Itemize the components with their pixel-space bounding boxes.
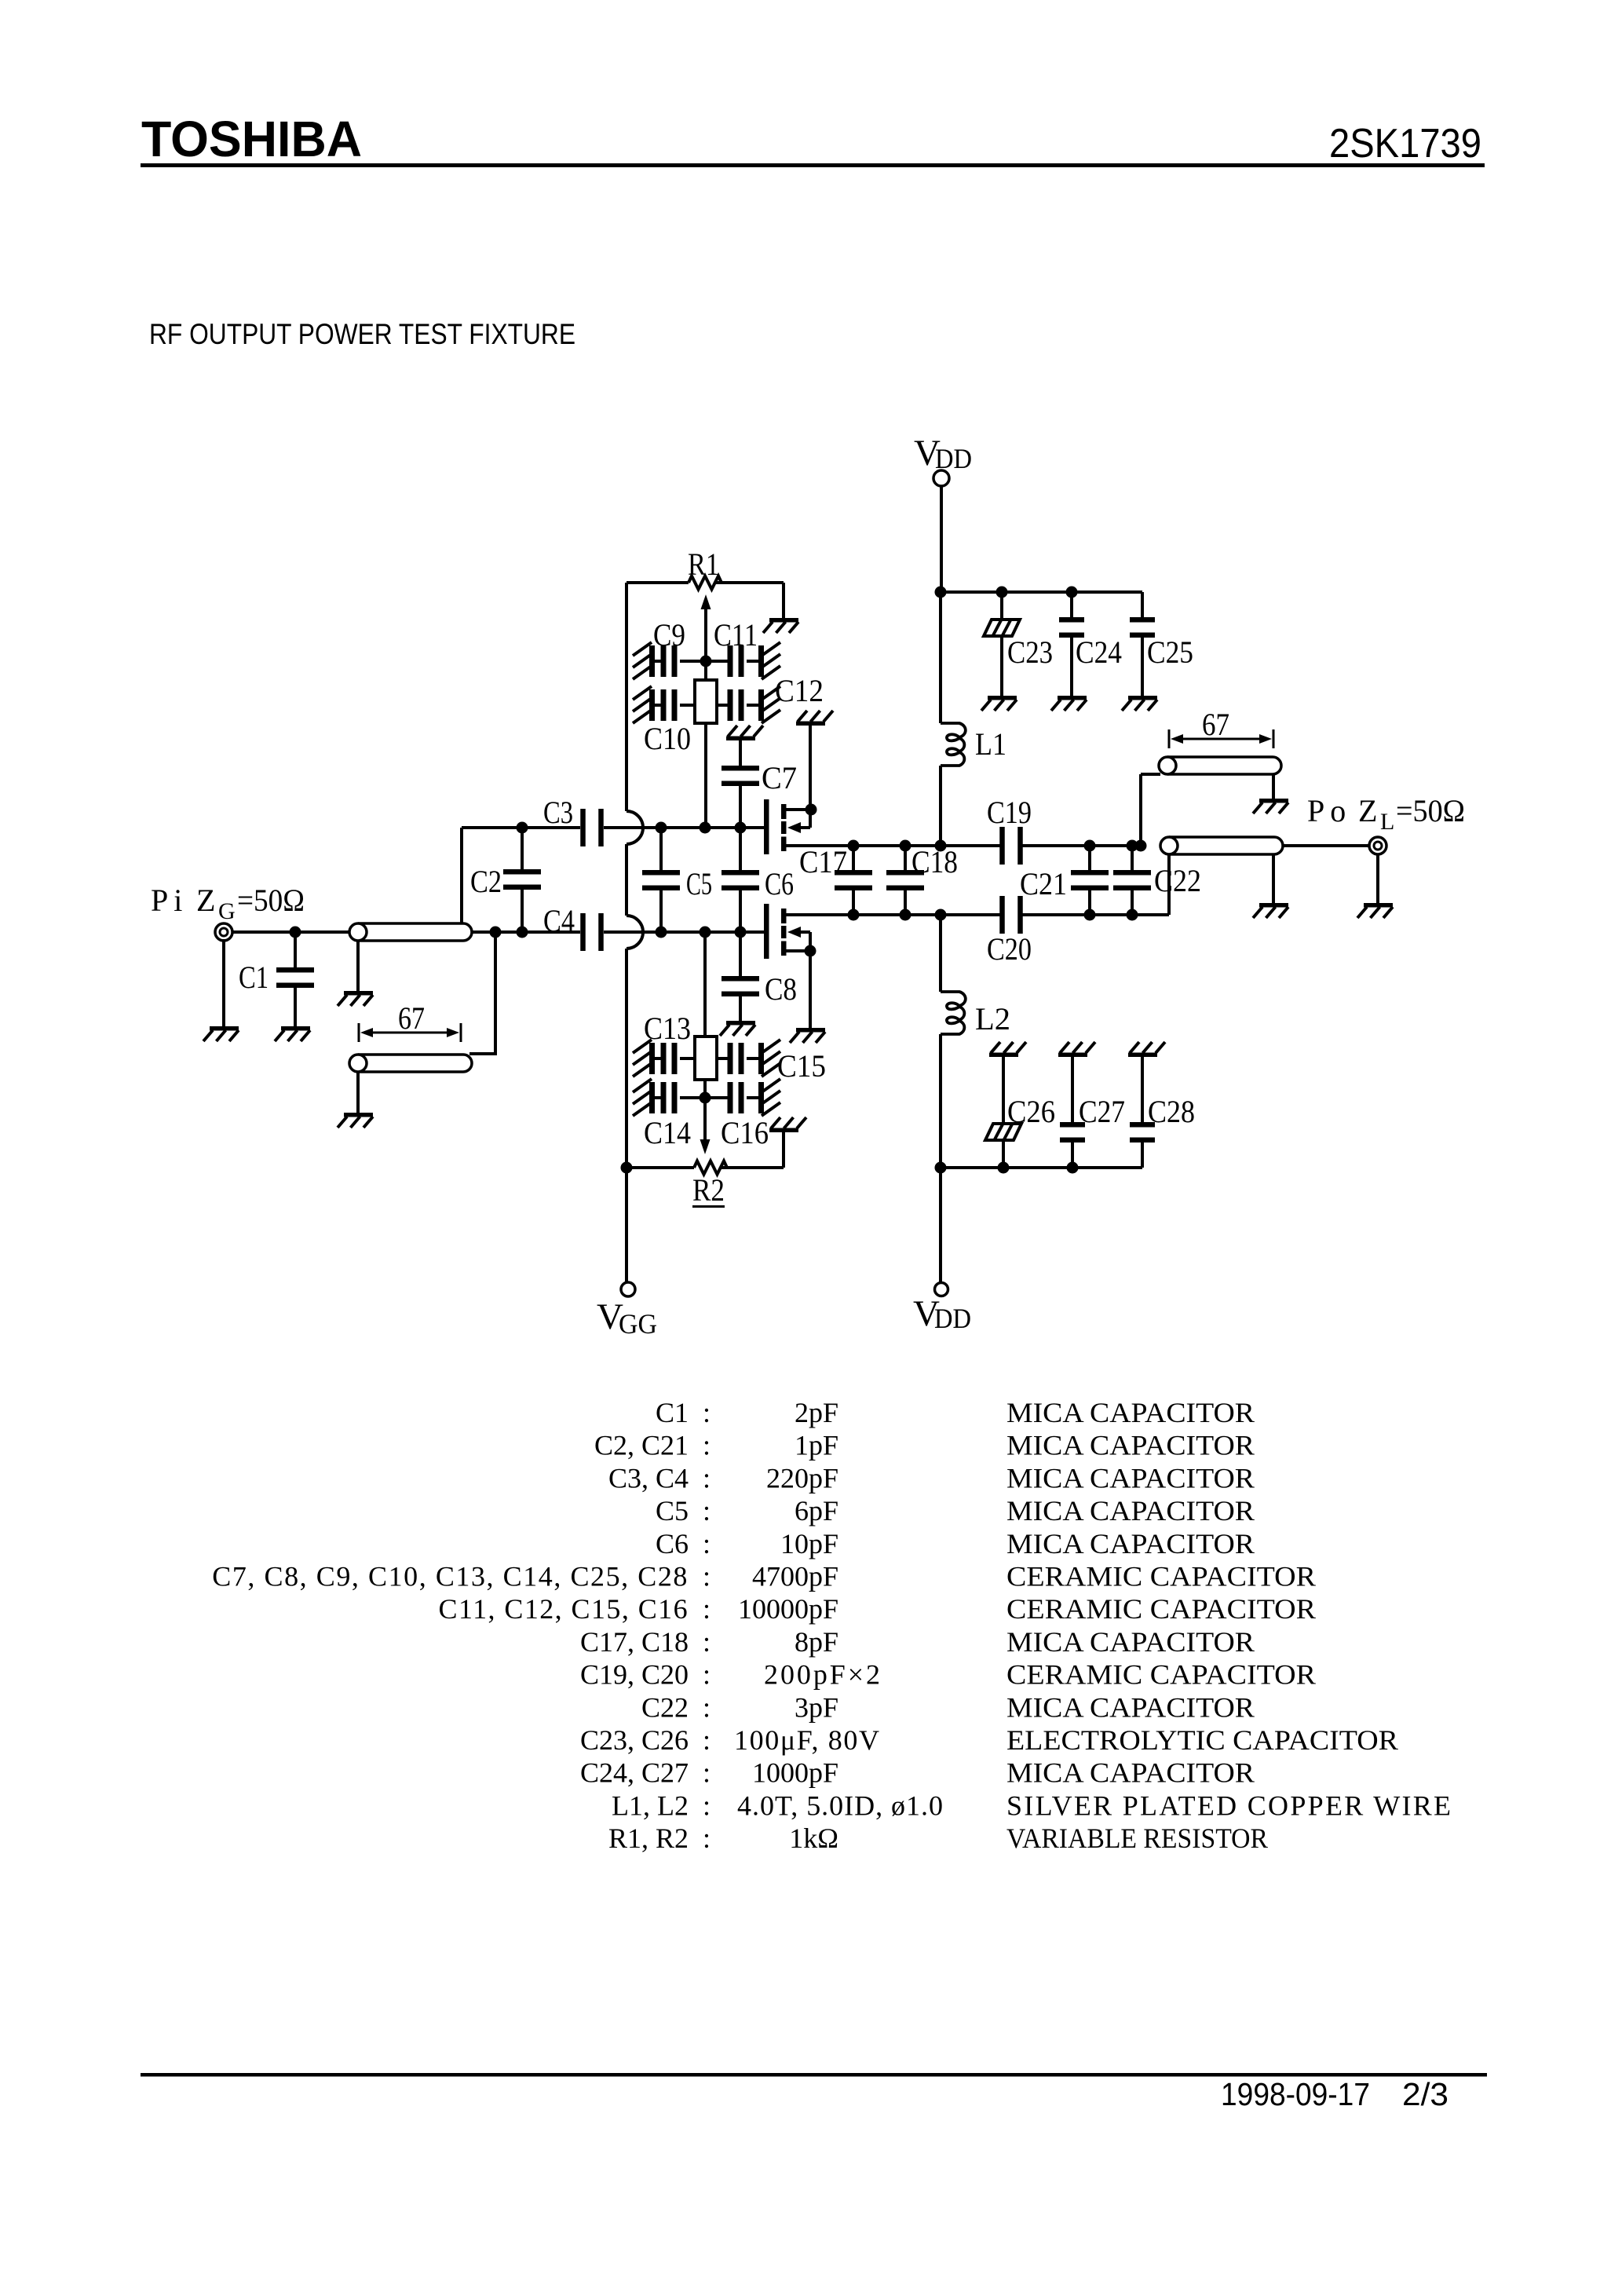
svg-text:C6: C6 [765, 866, 794, 901]
svg-text:Po: Po [1307, 793, 1351, 828]
svg-text:R1: R1 [688, 547, 719, 582]
svg-text:DD: DD [934, 1303, 971, 1334]
svg-text::: : [703, 1724, 711, 1756]
svg-text:C22: C22 [641, 1691, 689, 1723]
svg-text:67: 67 [1202, 707, 1229, 742]
svg-text::: : [703, 1561, 711, 1592]
svg-text:VARIABLE RESISTOR: VARIABLE RESISTOR [1006, 1823, 1268, 1854]
svg-text:GG: GG [619, 1308, 657, 1340]
svg-text:Pi: Pi [151, 883, 188, 918]
svg-text:C21: C21 [1020, 866, 1067, 901]
svg-text:DD: DD [935, 443, 972, 474]
svg-text:3pF: 3pF [795, 1691, 838, 1723]
svg-text:MICA CAPACITOR: MICA CAPACITOR [1006, 1495, 1255, 1526]
svg-text:=50Ω: =50Ω [1396, 793, 1465, 828]
svg-text:1998-09-17: 1998-09-17 [1221, 2076, 1370, 2112]
svg-text:C6: C6 [656, 1528, 689, 1559]
svg-text:C28: C28 [1148, 1094, 1195, 1129]
svg-text:C22: C22 [1154, 863, 1201, 898]
svg-text:200pF×2: 200pF×2 [764, 1659, 882, 1691]
svg-text:C17, C18: C17, C18 [580, 1626, 689, 1658]
svg-text:MICA CAPACITOR: MICA CAPACITOR [1006, 1691, 1255, 1723]
svg-text:C12: C12 [775, 673, 824, 708]
svg-text:C24, C27: C24, C27 [580, 1757, 689, 1789]
svg-text::: : [703, 1823, 711, 1854]
svg-text:MICA CAPACITOR: MICA CAPACITOR [1006, 1462, 1255, 1493]
svg-text:SILVER PLATED COPPER WIRE: SILVER PLATED COPPER WIRE [1006, 1790, 1452, 1821]
svg-text:C23, C26: C23, C26 [580, 1724, 689, 1756]
svg-text:TOSHIBA: TOSHIBA [141, 111, 362, 167]
svg-text:C5: C5 [686, 866, 712, 901]
svg-text:L1: L1 [975, 726, 1006, 762]
svg-text:C3: C3 [543, 795, 573, 830]
svg-text::: : [703, 1659, 711, 1691]
svg-text:C7: C7 [762, 760, 797, 795]
svg-text:C1: C1 [239, 960, 269, 995]
svg-text:C24: C24 [1076, 634, 1122, 670]
svg-text:C13: C13 [644, 1011, 691, 1046]
svg-text:=50Ω: =50Ω [237, 883, 305, 918]
svg-text:C10: C10 [644, 721, 691, 756]
svg-text:1kΩ: 1kΩ [789, 1823, 838, 1854]
svg-text:C2, C21: C2, C21 [594, 1430, 689, 1461]
svg-text:4700pF: 4700pF [752, 1561, 838, 1592]
svg-text:Z: Z [196, 883, 215, 918]
svg-text:MICA CAPACITOR: MICA CAPACITOR [1006, 1757, 1255, 1789]
svg-text::: : [703, 1430, 711, 1461]
svg-text:R2: R2 [692, 1172, 725, 1208]
svg-text:Z: Z [1358, 793, 1377, 828]
svg-text:ELECTROLYTIC CAPACITOR: ELECTROLYTIC CAPACITOR [1006, 1724, 1398, 1756]
svg-text:C3, C4: C3, C4 [608, 1462, 689, 1493]
svg-text:C16: C16 [721, 1115, 769, 1150]
svg-text:2SK1739: 2SK1739 [1329, 121, 1481, 166]
svg-text:C9: C9 [653, 617, 685, 653]
svg-text:C5: C5 [656, 1495, 689, 1526]
svg-text:2pF: 2pF [795, 1397, 838, 1428]
svg-text::: : [703, 1528, 711, 1559]
svg-text:C26: C26 [1007, 1094, 1055, 1129]
svg-text:L: L [1380, 809, 1394, 835]
svg-text:1pF: 1pF [795, 1430, 838, 1461]
svg-text:C18: C18 [911, 844, 958, 879]
svg-text:G: G [218, 898, 236, 924]
svg-text:10000pF: 10000pF [738, 1593, 838, 1625]
svg-text:C7, C8, C9, C10, C13, C14, C25: C7, C8, C9, C10, C13, C14, C25, C28 [212, 1561, 689, 1592]
svg-text:C19, C20: C19, C20 [580, 1659, 689, 1691]
svg-text:L1, L2: L1, L2 [612, 1790, 689, 1821]
svg-text:C17: C17 [799, 844, 847, 879]
svg-text:C14: C14 [644, 1115, 691, 1150]
svg-text:10pF: 10pF [780, 1528, 838, 1559]
svg-text:2/3: 2/3 [1402, 2076, 1448, 2112]
svg-text:C20: C20 [987, 931, 1032, 967]
svg-text:C4: C4 [543, 903, 575, 938]
svg-text:L2: L2 [975, 1001, 1010, 1036]
svg-text:MICA CAPACITOR: MICA CAPACITOR [1006, 1397, 1255, 1428]
svg-text::: : [703, 1593, 711, 1625]
svg-text:220pF: 220pF [766, 1462, 838, 1493]
svg-text:C11, C12, C15, C16: C11, C12, C15, C16 [439, 1593, 689, 1625]
svg-text:MICA CAPACITOR: MICA CAPACITOR [1006, 1626, 1255, 1658]
svg-text:RF OUTPUT POWER TEST FIXTURE: RF OUTPUT POWER TEST FIXTURE [149, 318, 575, 350]
svg-text:1000pF: 1000pF [752, 1757, 838, 1789]
svg-text:C1: C1 [656, 1397, 689, 1428]
svg-text:CERAMIC CAPACITOR: CERAMIC CAPACITOR [1006, 1593, 1316, 1625]
svg-text::: : [703, 1790, 711, 1821]
svg-text:C2: C2 [470, 864, 502, 899]
svg-text::: : [703, 1757, 711, 1789]
svg-text:C11: C11 [714, 617, 758, 653]
svg-text:6pF: 6pF [795, 1495, 838, 1526]
svg-text::: : [703, 1495, 711, 1526]
svg-text:C15: C15 [777, 1048, 826, 1084]
svg-text:MICA CAPACITOR: MICA CAPACITOR [1006, 1430, 1255, 1461]
svg-text:C8: C8 [765, 971, 797, 1007]
svg-text:C25: C25 [1147, 634, 1193, 670]
svg-text::: : [703, 1626, 711, 1658]
svg-text:CERAMIC CAPACITOR: CERAMIC CAPACITOR [1006, 1561, 1316, 1592]
svg-text:4.0T, 5.0ID, ø1.0: 4.0T, 5.0ID, ø1.0 [737, 1790, 944, 1821]
svg-text:C27: C27 [1079, 1094, 1125, 1129]
svg-text:100μF, 80V: 100μF, 80V [734, 1724, 881, 1756]
svg-text:R1, R2: R1, R2 [608, 1823, 689, 1854]
svg-text:C23: C23 [1007, 634, 1053, 670]
svg-text::: : [703, 1691, 711, 1723]
svg-text:MICA CAPACITOR: MICA CAPACITOR [1006, 1528, 1255, 1559]
svg-text:8pF: 8pF [795, 1626, 838, 1658]
svg-text::: : [703, 1397, 711, 1428]
svg-text:67: 67 [398, 1000, 425, 1036]
svg-text:CERAMIC CAPACITOR: CERAMIC CAPACITOR [1006, 1659, 1316, 1691]
svg-text::: : [703, 1462, 711, 1493]
svg-text:C19: C19 [987, 795, 1032, 830]
